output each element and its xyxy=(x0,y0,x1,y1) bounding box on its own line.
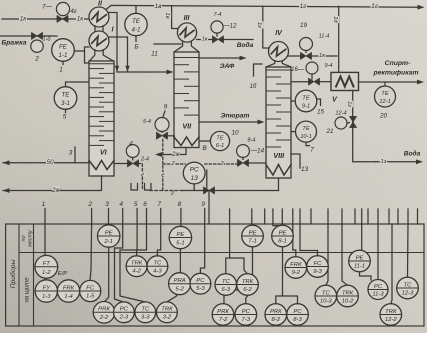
wire branch PC7-3 xyxy=(246,290,253,304)
instrument circle 9 xyxy=(155,118,169,132)
dephlegmator III xyxy=(177,23,196,42)
svg-text:В: В xyxy=(202,145,207,152)
svg-text:7-4: 7-4 xyxy=(213,12,221,18)
svg-text:3: 3 xyxy=(69,149,73,156)
svg-text:1в: 1в xyxy=(155,3,163,10)
wire panel drop 16 xyxy=(397,209,399,224)
panel instrument PRK 2-2 xyxy=(93,302,115,324)
panel instrument PC 5-3 xyxy=(190,273,211,294)
svg-text:ТRК: ТRК xyxy=(131,261,143,267)
panel instrument PRK 7-2 xyxy=(212,304,234,326)
wire valve 5-4 link xyxy=(168,135,175,137)
wire PE11-1 down xyxy=(360,272,372,280)
wire col VIII bottom stub xyxy=(278,178,280,191)
svg-text:1з: 1з xyxy=(346,101,352,107)
wire 251 to PE7-1 xyxy=(251,224,253,225)
wire FT to FY xyxy=(44,278,46,280)
arrow epyurat xyxy=(258,120,265,125)
controller PC 13 xyxy=(183,162,205,184)
svg-text:12-3: 12-3 xyxy=(402,291,415,297)
wire neck II-I left xyxy=(94,26,96,33)
wire 12-4 link xyxy=(347,122,350,124)
instrument circle 2 xyxy=(31,40,43,52)
svg-text:РС: РС xyxy=(374,284,383,290)
wire panel drop 17 xyxy=(407,209,409,224)
panel instrument TRK 12-2 xyxy=(380,304,402,326)
panel instrument TRK 3-2 xyxy=(157,302,178,323)
wire water out right xyxy=(375,161,416,163)
valve 2-4 xyxy=(127,160,138,167)
wire panel drop 14 xyxy=(377,209,379,224)
svg-text:2-1: 2-1 xyxy=(103,239,113,245)
wire panel drop 6 xyxy=(292,209,294,224)
svg-text:ТRК: ТRК xyxy=(342,290,354,296)
heat exchanger I xyxy=(89,31,109,51)
wire 3 to PE2-1 xyxy=(108,224,110,225)
svg-text:VII: VII xyxy=(182,122,192,131)
instrument TE 12-1 xyxy=(375,86,396,107)
panel instrument PRK 8-2 xyxy=(265,304,287,326)
svg-text:1к: 1к xyxy=(77,15,85,22)
svg-text:1-5: 1-5 xyxy=(86,294,95,300)
svg-text:10-3: 10-3 xyxy=(320,299,333,305)
wire number 7 drop xyxy=(160,209,162,225)
wire PC13 bottom stem xyxy=(193,184,195,190)
wire TRK3-2 feed xyxy=(167,277,177,302)
svg-text:9-2: 9-2 xyxy=(292,270,301,276)
label 50 xyxy=(46,158,54,166)
wire number 9 drop xyxy=(204,209,206,225)
svg-text:7-2: 7-2 xyxy=(219,317,228,323)
wire neck I to column right xyxy=(103,50,114,61)
panel instrument TC 4-3 xyxy=(147,256,168,277)
svg-text:1в: 1в xyxy=(164,12,170,18)
svg-text:2ж: 2ж xyxy=(171,151,180,158)
label 1z rotated xyxy=(346,101,353,108)
svg-text:VIII: VIII xyxy=(273,151,285,160)
svg-text:РRК: РRК xyxy=(270,309,282,315)
svg-text:РС: РС xyxy=(120,307,129,313)
svg-text:РRК: РRК xyxy=(217,309,229,315)
panel instrument PRA 5-2 xyxy=(169,273,191,295)
wire feed into column VII xyxy=(117,71,168,73)
svg-text:9: 9 xyxy=(164,103,168,110)
panel instrument TRK 4-2 xyxy=(126,256,147,277)
wire epyurat xyxy=(200,121,259,123)
svg-text:5-3: 5-3 xyxy=(196,286,205,292)
svg-text:1г: 1г xyxy=(300,3,308,10)
instrument circle 19 xyxy=(300,38,313,51)
svg-text:—14: —14 xyxy=(250,147,265,154)
wire branch to dephlegmator III xyxy=(172,6,178,29)
svg-text:10: 10 xyxy=(231,129,239,136)
svg-text:4г: 4г xyxy=(70,9,76,15)
svg-text:РRА: РRА xyxy=(174,278,186,284)
instrument circle 12-4 xyxy=(335,117,347,129)
svg-text:21: 21 xyxy=(325,128,334,135)
svg-text:8-2: 8-2 xyxy=(272,317,281,323)
wire neck IV left xyxy=(266,61,274,67)
wire exchanger I outlet xyxy=(109,37,128,72)
svg-text:7: 7 xyxy=(310,146,314,153)
svg-text:1-4: 1-4 xyxy=(64,294,73,300)
arrow spirit xyxy=(417,80,424,85)
wire PC13 left dashed xyxy=(163,163,185,165)
wire 408 to TC12-3 xyxy=(407,224,410,277)
label wave b xyxy=(159,171,167,176)
svg-text:2: 2 xyxy=(87,201,92,208)
panel instrument PE 8-1 xyxy=(272,225,294,247)
wire 9-4 stem xyxy=(311,74,313,79)
arrow 50 line xyxy=(3,160,10,165)
column VII xyxy=(174,52,199,148)
svg-text:1: 1 xyxy=(42,201,46,208)
wire 229 to TC6-3 xyxy=(226,224,230,274)
svg-text:3-3: 3-3 xyxy=(141,315,150,321)
valve 11-4 xyxy=(300,52,311,59)
panel instrument PC 8-3 xyxy=(287,304,309,326)
wire EAF outlet xyxy=(200,57,240,59)
wire panel drop 5 xyxy=(281,209,283,224)
panel instrument TC 10-3 xyxy=(315,285,337,307)
svg-text:ТRК: ТRК xyxy=(242,279,254,285)
svg-text:по: по xyxy=(21,236,27,242)
wire col VI bottom stub xyxy=(98,176,102,191)
svg-text:VI: VI xyxy=(100,148,108,157)
panel instrument TC 6-3 xyxy=(215,274,237,296)
svg-text:1-б: 1-б xyxy=(42,37,51,43)
svg-text:FRК: FRК xyxy=(290,262,302,268)
wire panel drop 10 xyxy=(341,209,343,224)
label 1k right xyxy=(76,15,84,23)
wire number 8 drop xyxy=(180,209,182,225)
wire neck IV right xyxy=(282,61,290,67)
svg-text:РЕ: РЕ xyxy=(279,230,287,236)
svg-text:Бражка: Бражка xyxy=(1,40,26,47)
svg-text:11-1: 11-1 xyxy=(354,264,365,270)
wire panel drop 7 xyxy=(299,209,301,224)
svg-text:Эпюрат: Эпюрат xyxy=(221,113,250,120)
svg-text:6-3: 6-3 xyxy=(222,287,231,293)
svg-text:1-3: 1-3 xyxy=(42,294,51,300)
svg-text:3-1: 3-1 xyxy=(61,100,70,107)
svg-text:6-1: 6-1 xyxy=(216,143,224,149)
wire number 6 drop xyxy=(146,209,148,225)
svg-text:8-3: 8-3 xyxy=(293,317,302,323)
svg-text:ТRК: ТRК xyxy=(385,309,397,315)
wire 9 stem xyxy=(161,131,163,134)
svg-text:1к: 1к xyxy=(202,37,208,43)
wire branch PC8-3 xyxy=(283,296,298,304)
wire panel drop 1 xyxy=(229,209,231,224)
label 1g top a xyxy=(299,2,307,10)
svg-text:РС: РС xyxy=(293,309,302,315)
wire TE4-1 down stub xyxy=(135,36,137,42)
wire TE3-1 tick xyxy=(65,109,67,112)
svg-text:FС: FС xyxy=(86,285,95,291)
label 1d rotated xyxy=(332,16,339,24)
svg-text:19: 19 xyxy=(300,22,308,29)
instrument circle 9-4 xyxy=(306,62,318,74)
svg-text:3-2: 3-2 xyxy=(163,315,172,321)
svg-text:4: 4 xyxy=(119,201,123,208)
svg-text:FУ: FУ xyxy=(43,285,52,291)
panel instrument PC 2-3 xyxy=(114,302,135,323)
condenser V xyxy=(331,72,359,90)
svg-text:9-4: 9-4 xyxy=(324,63,332,69)
wire 7 bracket xyxy=(306,142,310,146)
svg-text:РС: РС xyxy=(196,278,205,284)
instrument TE 3-1 xyxy=(54,87,77,110)
svg-text:ТЕ: ТЕ xyxy=(302,95,310,101)
svg-text:1г: 1г xyxy=(371,3,379,10)
svg-text:11: 11 xyxy=(151,50,158,57)
svg-text:2-2: 2-2 xyxy=(99,315,109,321)
svg-text:месту: месту xyxy=(27,230,33,247)
instrument circle 7 xyxy=(56,2,69,15)
svg-text:5: 5 xyxy=(134,201,138,208)
wire product to V xyxy=(320,81,331,83)
valve product xyxy=(308,78,319,85)
svg-text:1к: 1к xyxy=(20,15,28,22)
svg-text:10-1: 10-1 xyxy=(300,134,312,140)
svg-text:Спирт-: Спирт- xyxy=(385,60,411,67)
svg-text:FT: FT xyxy=(43,261,51,267)
arrow top line right xyxy=(418,5,425,10)
wire number 3 drop xyxy=(108,209,110,225)
column VI xyxy=(89,61,114,176)
panel instrument PE 5-1 xyxy=(169,226,191,248)
wire 15 bracket xyxy=(317,99,321,106)
wire neck III left xyxy=(174,41,182,52)
wire 272 to PE8-1 xyxy=(273,224,278,226)
wire 4 stem xyxy=(132,157,134,160)
heat exchanger II xyxy=(89,7,109,27)
valve 5-4 xyxy=(156,132,167,139)
arrow feed a xyxy=(115,66,119,72)
wire 8-4 stem xyxy=(242,157,244,159)
wire PE7-1 to PRK7-2 xyxy=(224,247,253,304)
svg-text:ТЕ: ТЕ xyxy=(132,18,141,25)
svg-text:1-1: 1-1 xyxy=(59,52,68,59)
wire panel drop 9 xyxy=(327,209,329,224)
label 1g top b xyxy=(371,2,379,10)
wire 1 to FT xyxy=(44,224,46,255)
svg-text:1д: 1д xyxy=(332,16,338,23)
svg-text:3: 3 xyxy=(105,201,109,208)
svg-text:50: 50 xyxy=(46,159,54,166)
svg-text:13: 13 xyxy=(301,166,309,173)
label 2zh mid xyxy=(171,150,180,158)
svg-text:ТС: ТС xyxy=(141,307,150,313)
svg-text:ЭАФ: ЭАФ xyxy=(220,63,235,70)
wire col VII bottoms xyxy=(161,148,186,155)
arrow 2zh xyxy=(3,188,10,193)
wire bottoms dashed part xyxy=(150,190,182,192)
svg-text:Вода: Вода xyxy=(237,41,254,49)
instrument circle 7-4 xyxy=(211,21,223,33)
panel instrument PE 7-1 xyxy=(242,225,264,247)
svg-text:FС: FС xyxy=(314,261,323,267)
instrument circle 8-4 xyxy=(237,145,250,158)
svg-text:Приборы: Приборы xyxy=(9,260,17,289)
svg-text:Е/Р: Е/Р xyxy=(58,271,67,277)
svg-text:1г: 1г xyxy=(256,22,262,28)
wire number 5 drop xyxy=(136,209,138,225)
wire PC13 right dashed xyxy=(205,163,238,165)
wire 1k cooling water line xyxy=(2,18,90,20)
instrument FE 1-1 xyxy=(52,39,75,62)
panel instrument FC 1-5 xyxy=(80,280,101,301)
wire product line xyxy=(291,81,308,83)
svg-text:15: 15 xyxy=(317,108,325,115)
svg-text:9-3: 9-3 xyxy=(313,269,322,275)
svg-text:7—: 7— xyxy=(42,3,53,10)
wire 342 to TRK10-2 xyxy=(342,224,348,285)
wire panel drop 8 xyxy=(310,209,312,224)
wire 6 to TRK4-2 xyxy=(137,224,147,256)
wire 5-4 signal down xyxy=(162,139,164,190)
panel instrument FRK 9-2 xyxy=(285,257,307,279)
svg-text:ТС: ТС xyxy=(404,282,413,288)
svg-text:4-1: 4-1 xyxy=(132,26,141,33)
wire 5 jog xyxy=(120,224,145,302)
wire TE6-1 stem xyxy=(200,140,211,142)
svg-text:6: 6 xyxy=(143,201,147,208)
wire 11-4 line xyxy=(289,55,301,57)
wire line 11 xyxy=(154,43,181,45)
svg-text:4-2: 4-2 xyxy=(132,269,141,275)
panel instrument FY 1-3 xyxy=(35,280,57,302)
arrow EAF xyxy=(240,56,247,61)
wire column VI side loop bracket xyxy=(85,47,90,63)
svg-text:5-1: 5-1 xyxy=(176,240,185,246)
wire 4 jog xyxy=(115,224,123,248)
wire exchanger II outlet xyxy=(109,13,118,72)
label 1v top xyxy=(154,2,162,10)
instrument TE 4-1 xyxy=(125,13,147,35)
wire PE2-1 to PRK2-2 xyxy=(104,247,109,302)
svg-text:12-1: 12-1 xyxy=(379,99,391,105)
wire 11-4 right open xyxy=(312,55,337,57)
wire 8 to PE5-1 xyxy=(180,224,182,227)
instrument TE 6-1 xyxy=(210,131,229,150)
wire PC13 right down xyxy=(206,170,208,190)
svg-text:11-3: 11-3 xyxy=(372,292,384,298)
label 2zh xyxy=(51,186,61,194)
wire neck I to column left xyxy=(89,50,95,61)
wire condenser water down xyxy=(353,91,375,162)
svg-text:8: 8 xyxy=(178,201,182,208)
label 1k water xyxy=(201,35,208,42)
wire water right open xyxy=(224,39,253,41)
svg-text:ТС: ТС xyxy=(153,261,162,267)
instrument circle 4 xyxy=(126,145,139,158)
svg-text:1з: 1з xyxy=(381,159,387,165)
wire 2zh bottoms line xyxy=(3,190,98,192)
wire panel drop 4 xyxy=(272,209,274,224)
instrument TE 10-1 xyxy=(296,121,317,142)
wire 300 to FC9-3 xyxy=(300,224,318,256)
label 1k left xyxy=(19,15,27,23)
svg-text:12-4: 12-4 xyxy=(335,110,346,116)
valve bottoms xyxy=(203,187,214,194)
arrow feed into col VII xyxy=(167,70,174,75)
label 1g rotated xyxy=(256,21,263,28)
svg-text:FRК: FRК xyxy=(63,285,75,291)
wire number 4 drop xyxy=(122,209,124,225)
wire 1b stub at column VIII neck xyxy=(254,64,263,76)
wire 7 to TC4-3 xyxy=(157,224,160,256)
svg-text:5: 5 xyxy=(63,113,67,120)
arrow 2zh mid xyxy=(155,152,162,157)
svg-text:РЕ: РЕ xyxy=(249,230,257,236)
valve water III xyxy=(212,36,223,43)
panel instrument PC 7-3 xyxy=(235,304,257,326)
wire branch to dephlegmator IV xyxy=(263,6,270,48)
svg-text:10-2: 10-2 xyxy=(342,299,355,305)
wire branch PC2-3 xyxy=(115,248,124,302)
svg-text:2: 2 xyxy=(34,55,39,62)
svg-text:РС: РС xyxy=(242,309,251,315)
wire brazhka feed xyxy=(0,35,57,37)
wire valve 8-4 to col VIII xyxy=(249,162,266,164)
wire 13 stub xyxy=(291,154,300,168)
wire TE3-1 to column VI xyxy=(66,82,90,87)
valve 1-b on feed xyxy=(31,32,42,39)
svg-text:FE: FE xyxy=(59,43,68,50)
svg-text:8-4: 8-4 xyxy=(247,138,255,144)
svg-text:7-1: 7-1 xyxy=(248,239,257,245)
instrument TE 9-1 xyxy=(295,90,317,112)
column VIII xyxy=(266,67,291,178)
wire neck III right xyxy=(191,41,198,52)
svg-text:ТЕ: ТЕ xyxy=(302,126,310,132)
valve 8-4 xyxy=(237,159,248,166)
svg-text:ректификат: ректификат xyxy=(372,70,418,77)
svg-text:ТЕ: ТЕ xyxy=(62,91,71,98)
wire 328 to TC10-3 xyxy=(326,224,328,285)
wire 361 to PE11-1 xyxy=(361,224,363,250)
wire 392 to TRK12-2 xyxy=(391,224,392,304)
panel instrument TRK 10-2 xyxy=(337,285,359,307)
svg-text:2ж: 2ж xyxy=(51,187,61,194)
wire water to dephlegmator III xyxy=(197,39,212,41)
wire panel drop 3 xyxy=(264,209,266,224)
wire branch TRK6-2 xyxy=(230,258,248,274)
panel instrument TC 3-3 xyxy=(135,302,156,323)
wire 9 glyph stem xyxy=(163,111,165,117)
arrow feed b xyxy=(125,66,129,72)
svg-text:ТЕ: ТЕ xyxy=(216,135,224,141)
panel instrument TRK 6-2 xyxy=(237,274,259,296)
svg-text:13: 13 xyxy=(191,175,199,182)
label 1v rotated xyxy=(164,12,171,19)
wire PE5-1 to PRK5-2 xyxy=(179,249,181,274)
wire number 1 drop xyxy=(44,209,46,225)
panel instrument FT 1-2 xyxy=(35,255,58,278)
wire bottoms to col VIII xyxy=(182,190,279,192)
wire hook b xyxy=(145,184,152,191)
svg-text:5-4: 5-4 xyxy=(143,119,151,125)
panel instrument PC 11-3 xyxy=(368,280,388,300)
wire 292 to FRK9-2 xyxy=(293,224,296,257)
svg-text:РRК: РRК xyxy=(98,307,110,313)
svg-text:на щите: на щите xyxy=(25,277,31,303)
wire 19 stem xyxy=(305,51,307,53)
wire 2-4 signal xyxy=(139,164,143,191)
svg-text:РЕ: РЕ xyxy=(356,255,364,261)
